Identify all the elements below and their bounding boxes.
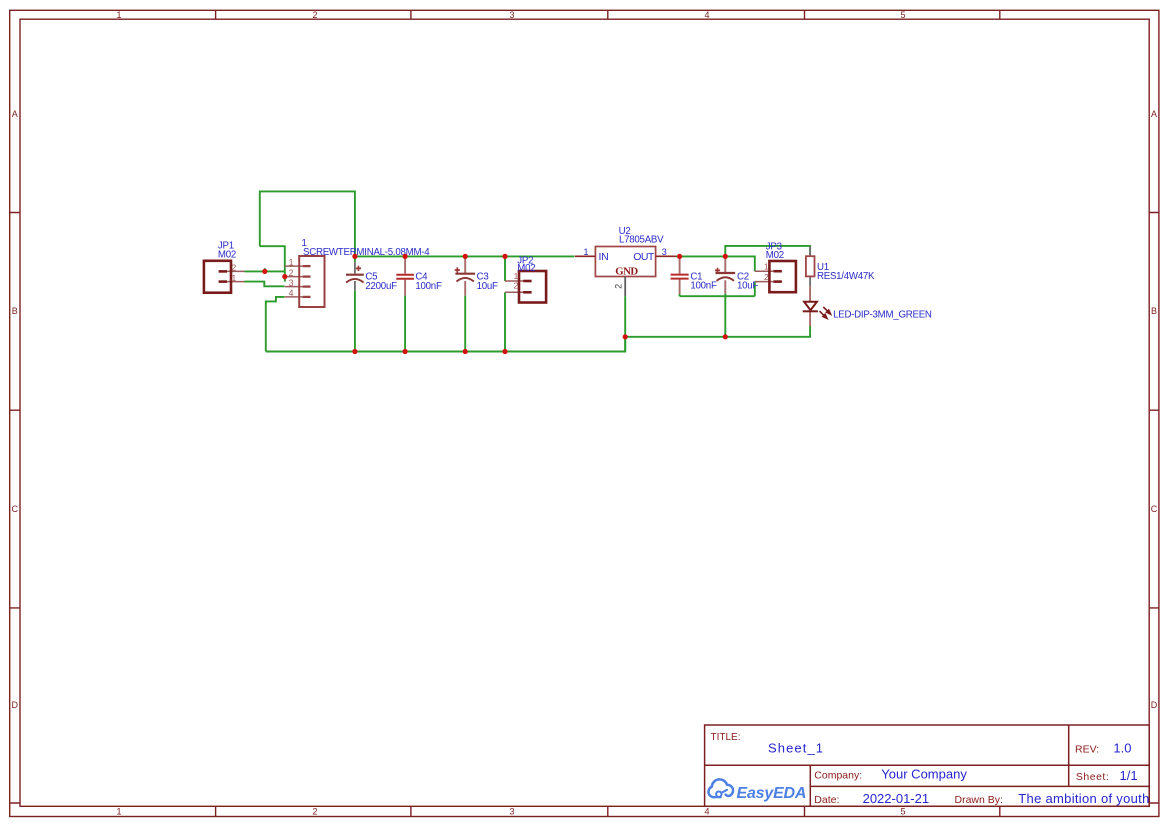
svg-text:TITLE:: TITLE: <box>711 732 741 743</box>
svg-text:Sheet:: Sheet: <box>1076 771 1109 783</box>
terminal pin 2 line <box>285 276 306 278</box>
terminal pin 3 line <box>285 286 306 288</box>
wire net VIN top loop from terminal pin1 to top bus <box>260 191 355 281</box>
U2 pin 3 line <box>656 255 676 257</box>
screw terminal T1 body <box>299 256 324 307</box>
svg-text:2022-01-21: 2022-01-21 <box>863 791 930 806</box>
JP2 pin 1 line <box>505 280 528 282</box>
svg-text:C: C <box>12 504 19 514</box>
svg-text:LED-DIP-3MM_GREEN: LED-DIP-3MM_GREEN <box>833 310 932 321</box>
wire C3 stubs <box>464 256 466 351</box>
svg-text:M02: M02 <box>218 249 236 260</box>
svg-text:D: D <box>12 700 19 710</box>
terminal pin 4 line <box>285 296 306 298</box>
capacitor C2 <box>715 259 735 293</box>
svg-text:1: 1 <box>116 10 121 20</box>
wire VOUT net <box>676 246 810 271</box>
terminal pin 1 line <box>285 265 306 267</box>
JP3 pin 2 line <box>755 281 778 283</box>
capacitor C4 <box>396 259 414 296</box>
svg-text:4: 4 <box>704 807 709 817</box>
svg-text:1: 1 <box>764 261 769 271</box>
svg-text:1.0: 1.0 <box>1113 741 1131 756</box>
svg-text:Your Company: Your Company <box>881 767 967 782</box>
svg-text:2200uF: 2200uF <box>365 281 397 292</box>
svg-text:5: 5 <box>900 807 905 817</box>
svg-text:A: A <box>12 109 18 119</box>
wire C4 stubs <box>404 256 406 351</box>
capacitor C5 <box>346 262 364 290</box>
svg-text:2: 2 <box>514 281 519 291</box>
svg-text:5: 5 <box>900 10 905 20</box>
svg-text:GND: GND <box>615 265 638 277</box>
svg-text:4: 4 <box>289 288 294 298</box>
svg-text:A: A <box>1151 109 1157 119</box>
svg-text:Sheet_1: Sheet_1 <box>768 741 824 756</box>
svg-text:RES1/4W47K: RES1/4W47K <box>817 271 875 282</box>
svg-text:REV:: REV: <box>1075 744 1099 756</box>
svg-text:2: 2 <box>312 807 317 817</box>
JP3 pin 1 line <box>755 270 778 272</box>
svg-text:IN: IN <box>599 251 609 263</box>
wire LED cathode to right ground bus <box>625 326 810 337</box>
svg-text:Date:: Date: <box>814 794 839 806</box>
title block <box>705 725 1150 806</box>
LED D1 <box>803 286 831 326</box>
svg-text:10uF: 10uF <box>477 281 498 292</box>
svg-text:EasyEDA: EasyEDA <box>737 785 807 802</box>
svg-text:2: 2 <box>232 263 237 273</box>
U2 pin 2 line <box>624 277 626 297</box>
svg-text:1: 1 <box>584 247 589 257</box>
svg-text:3: 3 <box>662 247 667 257</box>
svg-text:3: 3 <box>509 10 514 20</box>
JP1 pin 2 line <box>222 270 245 272</box>
svg-text:1: 1 <box>232 273 237 283</box>
svg-text:The ambition of youth: The ambition of youth <box>1018 791 1149 806</box>
svg-text:B: B <box>1151 306 1157 316</box>
U2 pin 1 line <box>575 255 595 257</box>
resistor U1 <box>806 246 815 286</box>
svg-text:100nF: 100nF <box>415 281 442 292</box>
svg-text:Company:: Company: <box>814 770 862 782</box>
EasyEDA logo <box>708 779 733 797</box>
svg-text:2: 2 <box>764 272 769 282</box>
svg-text:L7805ABV: L7805ABV <box>619 235 664 246</box>
svg-text:B: B <box>12 306 18 316</box>
svg-text:1: 1 <box>116 807 121 817</box>
svg-text:4: 4 <box>704 10 709 20</box>
wire ground bus bottom <box>266 337 625 352</box>
wire JP1 pin1 to terminal pin3 <box>245 282 285 287</box>
svg-text:M02: M02 <box>517 263 535 274</box>
svg-text:2: 2 <box>613 284 623 289</box>
wire U2 GND pin to ground bus <box>624 296 626 351</box>
wire C2 stubs <box>724 256 726 296</box>
connector JP1 <box>204 261 231 293</box>
wire C1 C2 JP3 lower bus <box>680 282 755 337</box>
svg-text:D: D <box>1151 700 1158 710</box>
svg-text:M02: M02 <box>766 250 784 261</box>
wire JP2 stubs <box>504 256 506 351</box>
wire VIN bus <box>355 255 575 257</box>
regulator U2 L7805ABV <box>595 247 655 278</box>
svg-text:100nF: 100nF <box>690 281 717 292</box>
connector JP2 <box>519 271 546 303</box>
svg-text:3: 3 <box>509 807 514 817</box>
JP1 pin 1 line <box>222 281 245 283</box>
svg-text:SCREWTERMINAL-5.08MM-4: SCREWTERMINAL-5.08MM-4 <box>303 247 430 258</box>
wire C5 stubs <box>354 256 356 351</box>
svg-text:2: 2 <box>289 268 294 278</box>
wire JP1 pin2 to terminal pin2 <box>245 268 285 271</box>
svg-text:Drawn By:: Drawn By: <box>955 794 1003 806</box>
JP2 pin 2 line <box>505 291 528 293</box>
svg-text:1: 1 <box>289 257 294 267</box>
wire C1 stubs <box>679 256 681 296</box>
svg-text:1/1: 1/1 <box>1120 768 1138 783</box>
capacitor C3 <box>455 259 475 296</box>
svg-text:3: 3 <box>289 278 294 288</box>
capacitor C1 <box>671 259 689 294</box>
svg-text:C: C <box>1151 504 1158 514</box>
wire terminal pin4 to ground bus <box>266 297 285 352</box>
junction dots <box>262 254 728 354</box>
connector JP3 <box>769 261 796 292</box>
svg-text:OUT: OUT <box>633 251 655 263</box>
svg-text:2: 2 <box>312 10 317 20</box>
